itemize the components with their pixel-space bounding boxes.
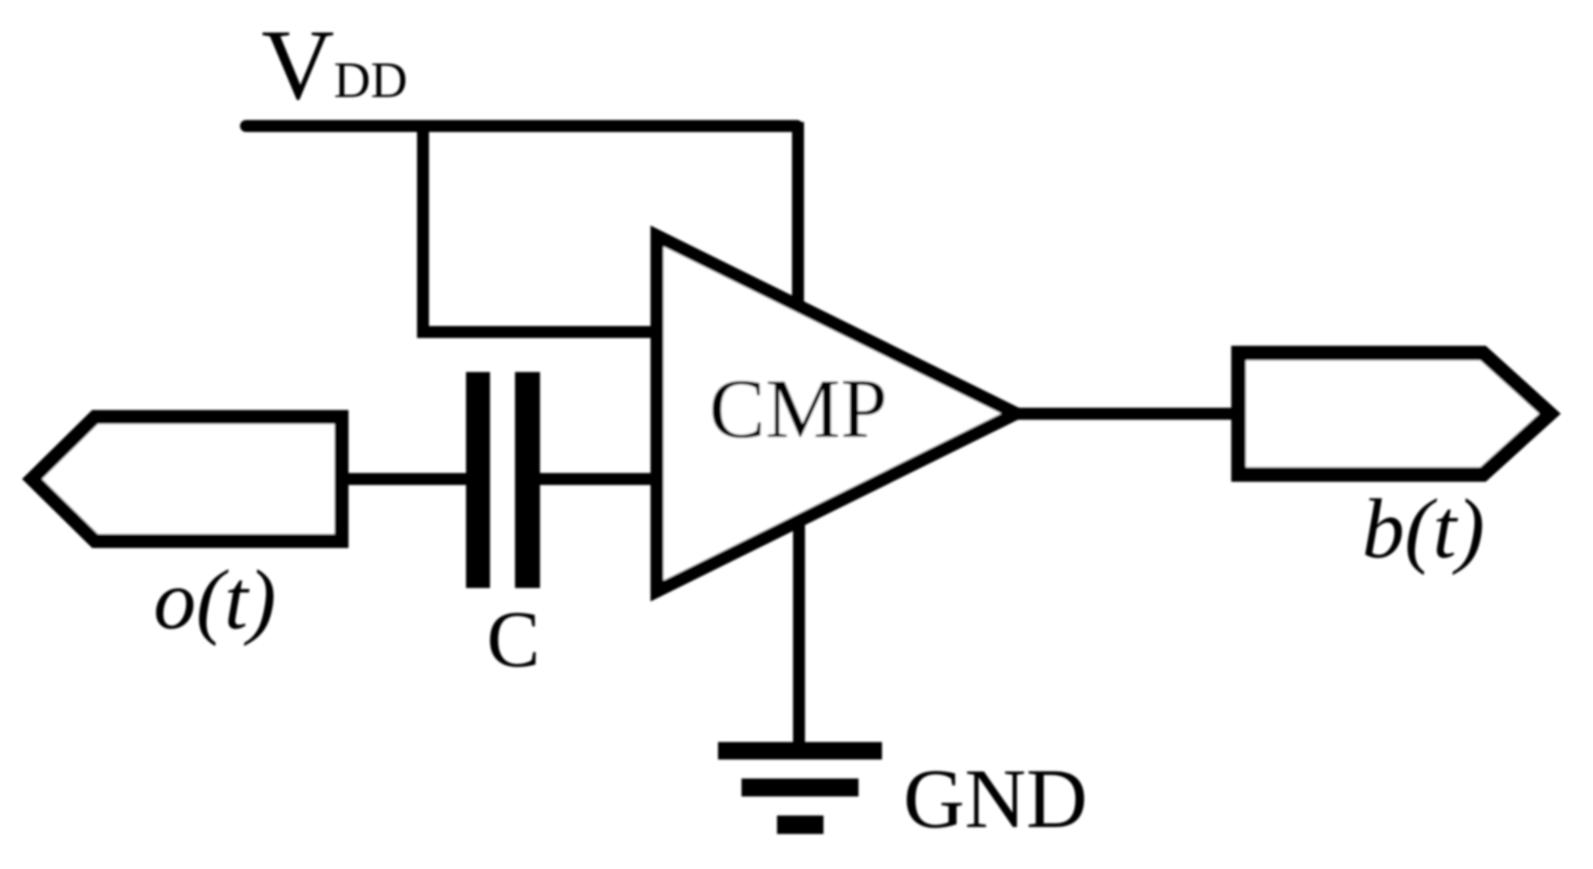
svg-text:C: C [487,596,540,684]
svg-text:GND: GND [903,752,1087,846]
svg-text:CMP: CMP [709,363,888,456]
svg-text:DD: DD [334,53,408,109]
svg-text:b(t): b(t) [1362,482,1485,576]
svg-text:o(t): o(t) [154,553,277,647]
svg-text:V: V [261,9,334,121]
